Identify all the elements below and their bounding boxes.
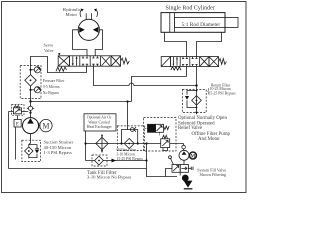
hydraulic motor M1 <box>78 19 99 40</box>
offline motor M2 <box>189 152 196 160</box>
check ball offline pump <box>182 145 186 149</box>
servo valve V1 body <box>69 56 111 66</box>
directional valve V2 left spring <box>171 67 181 71</box>
svg-text:Water Cooled: Water Cooled <box>88 120 109 124</box>
svg-text:Valve: Valve <box>44 48 54 53</box>
svg-text:Offline Filter: Offline Filter <box>117 148 137 152</box>
wire heat exchanger drop <box>85 131 87 161</box>
svg-text:M: M <box>42 122 49 131</box>
system fill valve V4 <box>169 156 193 173</box>
servo valve V1 left spring <box>56 67 67 71</box>
solenoid relief dashed enclosure <box>144 118 177 152</box>
offline pump P2 <box>179 150 189 160</box>
relief valve RV1 <box>9 106 29 114</box>
svg-text:Servo: Servo <box>44 43 54 48</box>
label suction strainer <box>44 140 74 156</box>
node pump outlet junction <box>29 100 31 102</box>
servo valve V1 left solenoid <box>58 53 69 66</box>
pressure filter indicator gauges <box>29 67 40 93</box>
wire pressure manifold <box>31 67 187 130</box>
return filter F2 <box>185 90 201 109</box>
heat exchanger box label <box>84 114 116 131</box>
wire relief drain / tank left wall <box>8 112 10 169</box>
suction strainer S1 <box>25 145 39 158</box>
wire pump suction <box>29 134 31 159</box>
servo valve V1 section arrows <box>72 56 110 66</box>
label offline filter <box>117 148 144 161</box>
suction strainer dashed enclosure <box>22 140 41 161</box>
solenoid relief valve V3 <box>145 124 170 132</box>
directional valve V2 body <box>171 57 209 67</box>
pump compensator box <box>14 115 21 128</box>
offline filter dashed enclosure <box>117 126 144 151</box>
motor rotation arrows <box>80 9 97 18</box>
svg-text:Relief Valve: Relief Valve <box>178 126 202 131</box>
svg-text:Pressure Filter: Pressure Filter <box>43 79 65 83</box>
offline filter F3 <box>120 127 138 148</box>
svg-text:Motor: Motor <box>66 12 78 17</box>
wire case drain <box>15 127 17 160</box>
node kidney loop tank tap <box>145 142 147 144</box>
quick disconnect QD1 <box>180 172 192 189</box>
directional valve V2 right solenoid <box>209 57 219 67</box>
svg-text:M: M <box>191 155 196 160</box>
node return junction <box>195 84 197 86</box>
svg-text:15-25 PSI Bypass: 15-25 PSI Bypass <box>208 91 236 95</box>
coupling pump to motor <box>38 123 40 129</box>
label system fill valve <box>197 167 226 177</box>
electric motor EM1 <box>40 119 52 131</box>
directional valve V2 right spring <box>219 59 227 65</box>
svg-text:Suction Strainer: Suction Strainer <box>44 140 74 145</box>
wire offline loop line <box>86 143 184 145</box>
return arrow into tank <box>195 112 198 115</box>
directional valve V2 section arrows <box>173 57 209 66</box>
directional valve V2 left solenoid <box>161 57 170 67</box>
node manifold tee <box>126 100 128 102</box>
label servo valve <box>44 43 54 54</box>
svg-text:E: E <box>16 123 19 128</box>
svg-text:10-25 Micron: 10-25 Micron <box>210 87 231 91</box>
svg-text:3-5 Micron: 3-5 Micron <box>43 85 60 89</box>
label tank fill filter <box>87 171 131 179</box>
tank reservoir outline <box>9 144 178 177</box>
wire fill valve to tank <box>166 169 173 177</box>
cylinder CYL1 <box>161 13 238 33</box>
pressure filter F1 diamond <box>25 66 36 101</box>
node loop left <box>84 142 86 144</box>
svg-text:40-150 Micron: 40-150 Micron <box>44 145 72 150</box>
svg-text:3-10 Micron No Bypass: 3-10 Micron No Bypass <box>87 175 131 180</box>
servo valve V1 right spring <box>121 58 130 64</box>
wire motor yoke to servo valve <box>73 30 103 56</box>
svg-text:5:1 Rod Diameter: 5:1 Rod Diameter <box>182 22 221 28</box>
label optional relief valve <box>178 116 231 142</box>
motor shaft <box>86 13 91 19</box>
label hydraulic motor <box>63 7 81 17</box>
check valve CV1 <box>27 102 34 118</box>
wire T return from servo valve <box>94 66 197 85</box>
pump P1 <box>23 118 39 134</box>
wire cylinder to valve V2 <box>165 32 222 56</box>
tank fill filter F4 <box>86 156 148 165</box>
heat exchanger HE1 <box>96 134 108 153</box>
svg-text:1-3 PSI Bypass: 1-3 PSI Bypass <box>44 150 73 155</box>
label pressure filter <box>43 79 65 95</box>
svg-text:Single Rod Cylinder: Single Rod Cylinder <box>166 5 215 11</box>
wire loop to offline pump <box>183 144 185 151</box>
wire valve V2 tank port to return filter <box>196 67 198 113</box>
svg-text:3-10 Micron: 3-10 Micron <box>117 153 136 157</box>
pressure filter dashed enclosure <box>20 66 41 99</box>
svg-text:No Bypass: No Bypass <box>43 91 60 95</box>
relief valve RV2 <box>160 132 170 150</box>
tank fill filter dashed enclosure <box>92 155 107 166</box>
svg-text:Optional Air Or: Optional Air Or <box>87 116 112 120</box>
return filter dashed enclosure <box>182 90 206 113</box>
label return filter <box>207 83 237 95</box>
svg-text:Heat Exchanger: Heat Exchanger <box>87 125 113 129</box>
wire P from servo valve to pressure filter <box>31 57 87 73</box>
svg-text:And Motor: And Motor <box>198 137 220 142</box>
svg-text:Shown Filtering: Shown Filtering <box>200 172 227 177</box>
relief valve RV1 dashed enclosure <box>12 105 24 116</box>
servo valve V1 right solenoid <box>111 56 121 66</box>
